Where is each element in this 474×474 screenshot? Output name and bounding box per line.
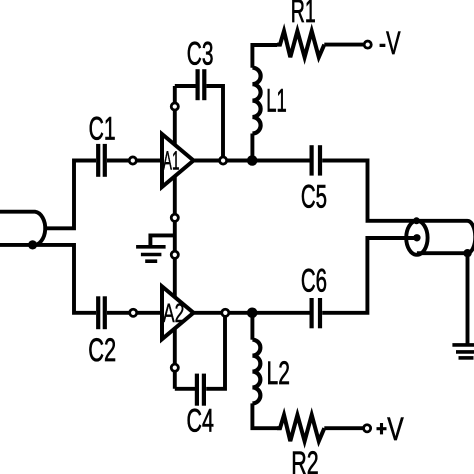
svg-text:R2: R2 bbox=[291, 444, 318, 474]
terminal ring bias lower bbox=[171, 251, 178, 258]
terminal ring on C4 left branch bbox=[171, 364, 178, 371]
svg-text:-V: -V bbox=[379, 24, 401, 61]
op-amp A2 bbox=[162, 286, 194, 339]
terminal ring on C3 left branch bbox=[171, 103, 178, 110]
svg-text:L1: L1 bbox=[266, 81, 287, 118]
ground GND1 bias bbox=[136, 247, 166, 261]
terminal ring after C1 bbox=[129, 157, 136, 164]
wire: output shield to ground bbox=[466, 253, 470, 344]
svg-text:R1: R1 bbox=[291, 0, 316, 29]
wire: C2 to A2 input bbox=[107, 311, 162, 315]
wire: L1 upper lead bbox=[250, 134, 254, 161]
wire: L1 to R1 bbox=[252, 45, 277, 68]
connector J2 coax output body bbox=[406, 221, 474, 255]
junction dot input shield bbox=[28, 240, 37, 249]
wire: bias tap to ground bbox=[150, 235, 174, 247]
wire: L2 to R2 bbox=[252, 403, 277, 428]
capacitor C6 bbox=[312, 298, 320, 328]
wire: L2 upper lead bbox=[250, 313, 254, 340]
terminal ring after C2 bbox=[130, 309, 137, 316]
inductor L1 bbox=[252, 68, 260, 134]
wire: input shield to C2 branch bbox=[0, 245, 96, 313]
capacitor C3 bbox=[198, 69, 205, 100]
junction dot on output shield top bbox=[413, 217, 420, 224]
capacitor C1 bbox=[98, 144, 105, 177]
capacitor C4 bbox=[197, 374, 204, 406]
wire: R2 to +V terminal bbox=[324, 426, 362, 430]
svg-text:C4: C4 bbox=[187, 401, 214, 438]
connector J1 coax input body bbox=[0, 212, 45, 245]
wire: A2 output row to C6 bbox=[194, 238, 415, 313]
svg-text:C1: C1 bbox=[89, 110, 116, 147]
wire: C4 feedback bottom bbox=[175, 313, 225, 389]
ground GND2 output bbox=[452, 345, 474, 358]
wire: feedback-bias column (C3 loop left, A1 to A2 chain, C4 loop left) bbox=[173, 86, 177, 389]
junction dot node A1-L1 bbox=[247, 155, 258, 166]
svg-text:L2: L2 bbox=[267, 354, 290, 391]
junction dot output shield right bbox=[463, 249, 471, 257]
label +V bbox=[377, 423, 387, 434]
terminal ring on A1 output bbox=[220, 157, 227, 164]
junction dot output center pin bbox=[413, 234, 420, 241]
capacitor C5 bbox=[312, 145, 320, 175]
wire: input center conductor to C1 branch bbox=[45, 161, 96, 229]
wire: C3 feedback top bbox=[175, 86, 223, 161]
svg-text:C6: C6 bbox=[301, 262, 327, 299]
terminal ring +V bbox=[364, 425, 371, 432]
svg-text:A1: A1 bbox=[163, 146, 180, 176]
terminal ring bias upper bbox=[171, 214, 178, 221]
terminal ring -V bbox=[364, 41, 371, 48]
wire: A1 output row to C5 bbox=[194, 161, 415, 221]
svg-text:V: V bbox=[387, 410, 404, 447]
capacitor C2 bbox=[98, 296, 105, 329]
svg-text:C2: C2 bbox=[88, 331, 116, 368]
wire: R1 to -V terminal bbox=[324, 43, 363, 47]
svg-text:A2: A2 bbox=[163, 298, 185, 328]
resistor R2 bbox=[277, 415, 324, 441]
junction dot node A2-L2 bbox=[247, 308, 258, 319]
svg-text:C3: C3 bbox=[187, 35, 214, 72]
terminal ring on A2 output bbox=[222, 309, 229, 316]
op-amp A1 bbox=[162, 134, 194, 187]
resistor R1 bbox=[277, 31, 324, 57]
inductor L2 bbox=[252, 340, 260, 404]
wire: C1 to A1 input bbox=[107, 159, 162, 163]
svg-text:C5: C5 bbox=[301, 178, 327, 215]
